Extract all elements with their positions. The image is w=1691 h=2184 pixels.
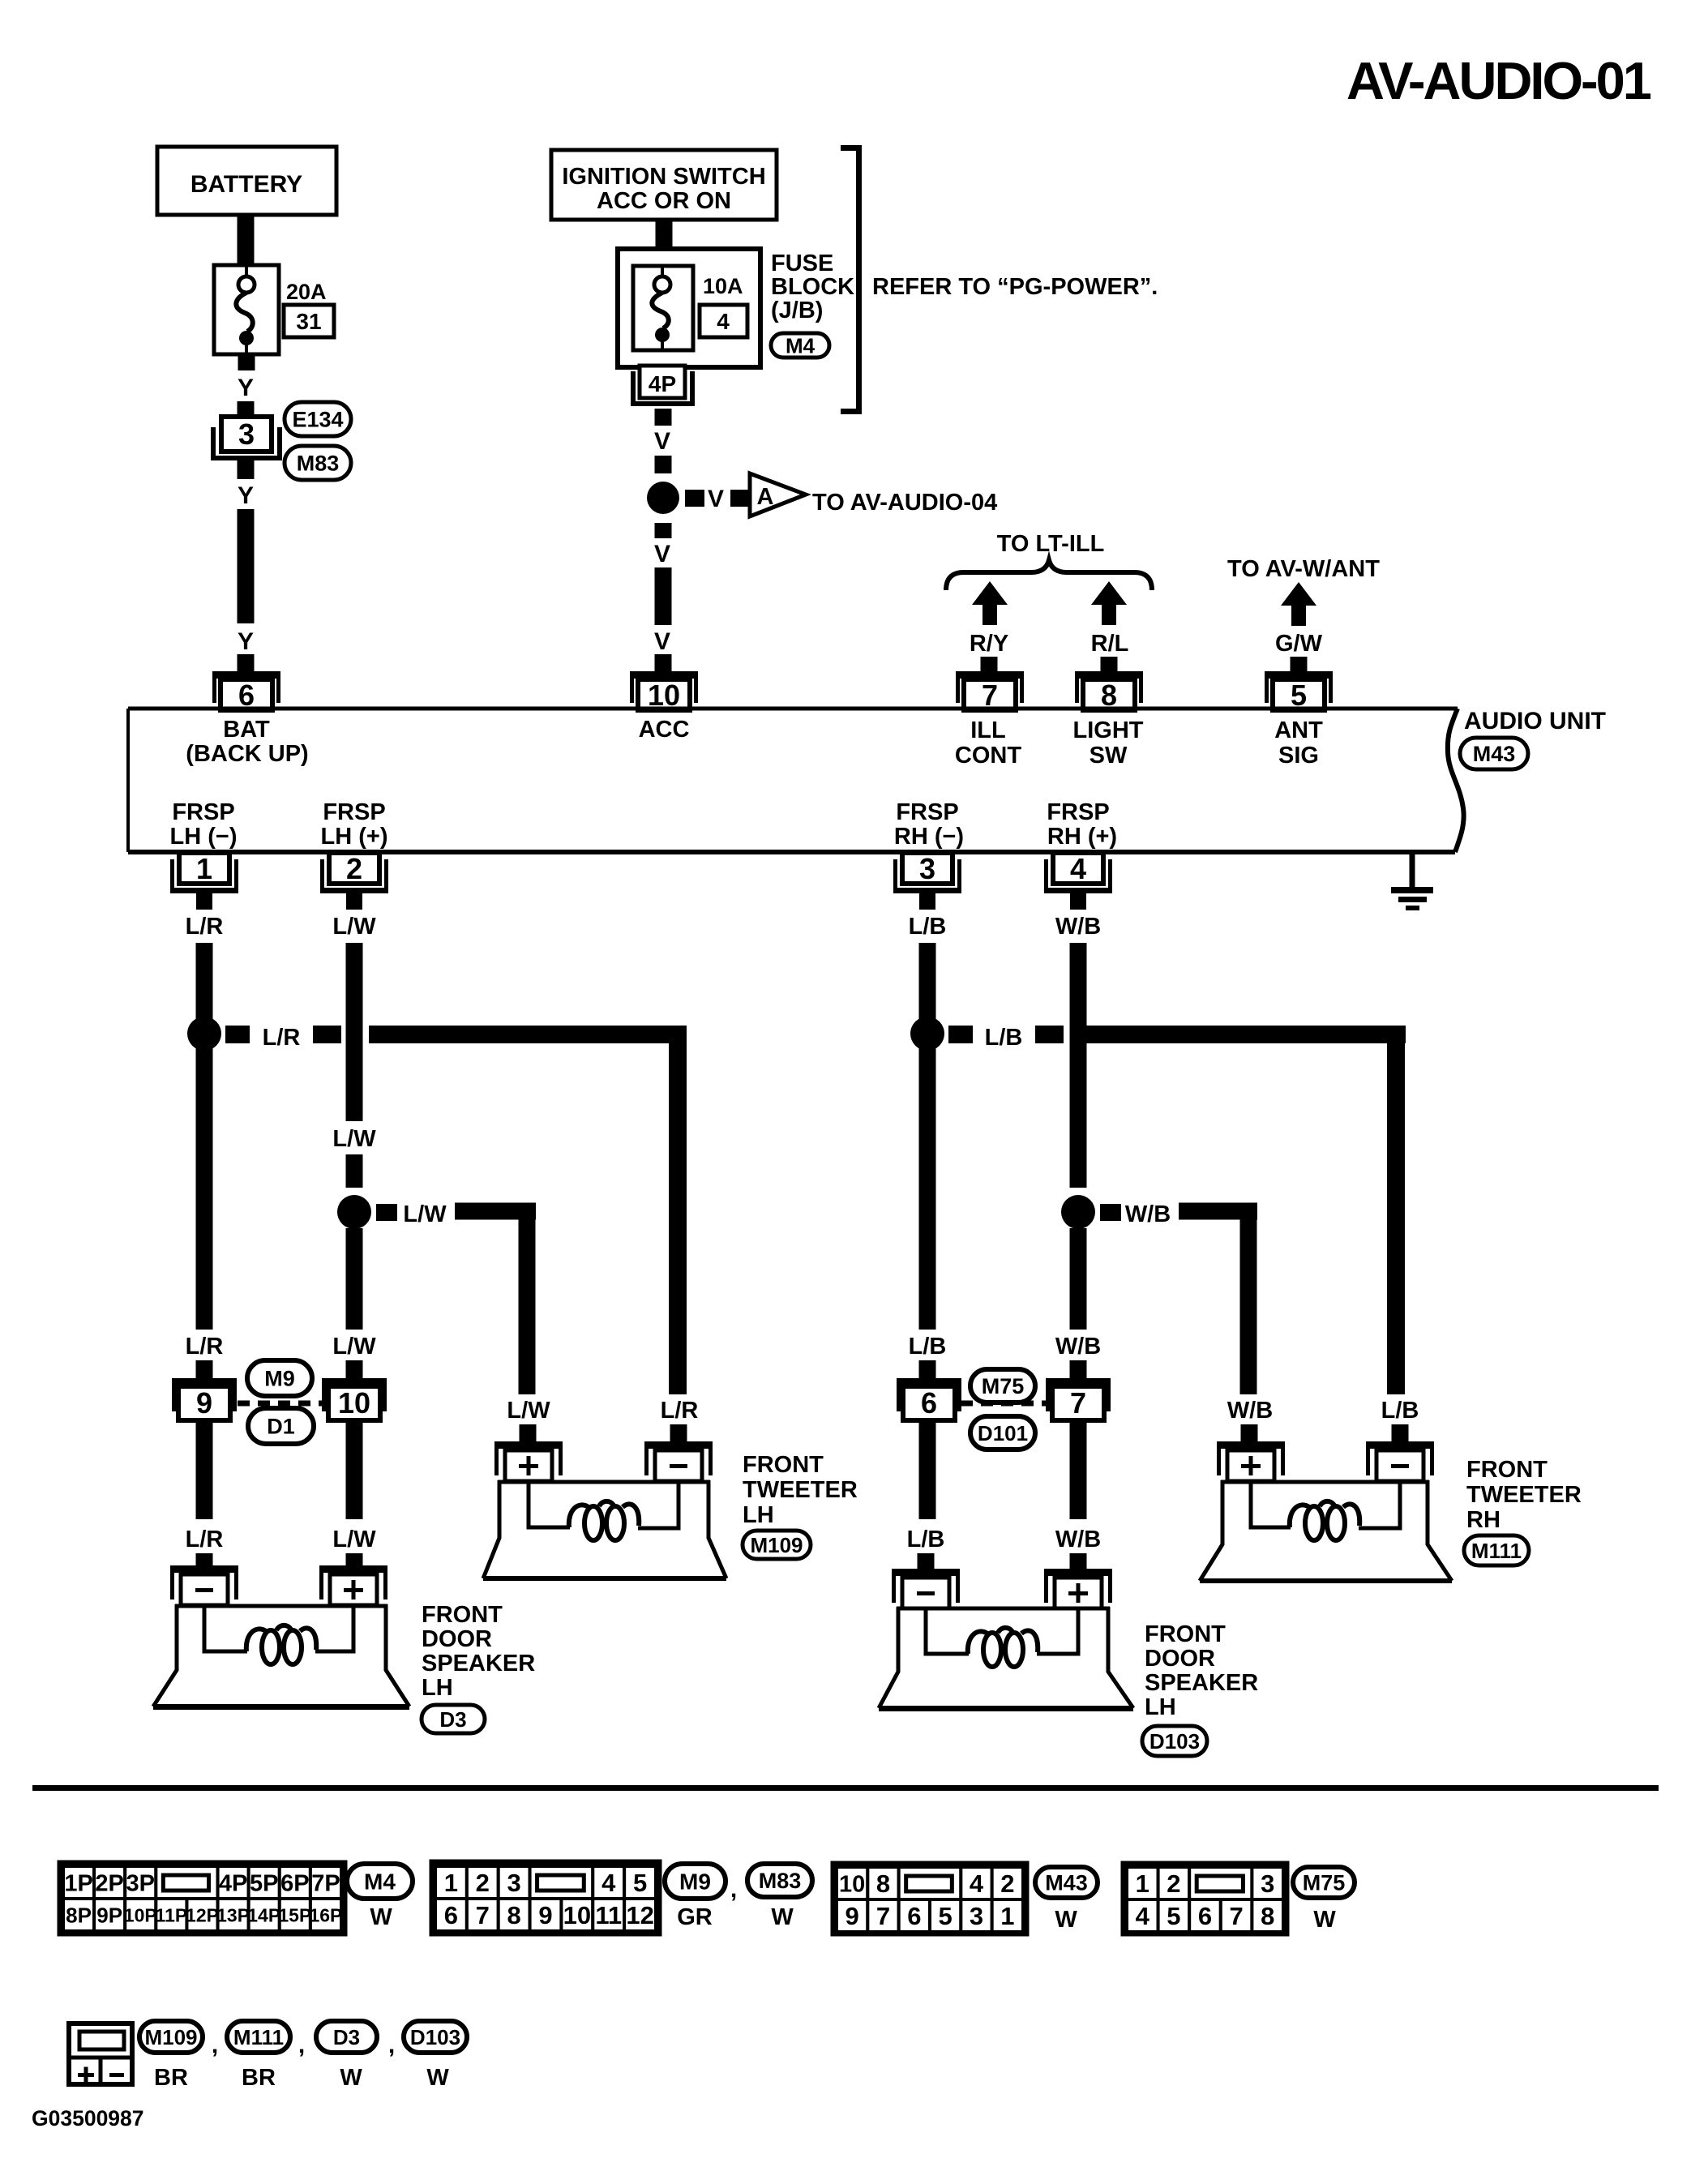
wire label R/Y	[970, 631, 1008, 657]
wire L/B connector 6 to speaker	[919, 1420, 936, 1519]
svg-text:M43: M43	[1473, 742, 1516, 766]
title AV-AUDIO-01	[1346, 51, 1651, 110]
svg-text:ACC: ACC	[639, 717, 690, 743]
svg-text:D3: D3	[333, 2025, 360, 2049]
svg-text:FRONT: FRONT	[1145, 1621, 1226, 1647]
note REFER TO PG-POWER	[872, 274, 1158, 300]
fuse block M4 outer box	[618, 249, 760, 367]
wire L/R stub above speaker -	[196, 1553, 213, 1572]
svg-text:LH: LH	[743, 1502, 774, 1528]
connector label M9	[247, 1360, 312, 1396]
tweeter RH voice coil	[1290, 1501, 1359, 1540]
tweeter LH + terminal	[494, 1441, 563, 1481]
svg-text:8: 8	[507, 1901, 521, 1929]
color label W (M83)	[771, 1904, 794, 1930]
svg-text:M111: M111	[233, 2025, 284, 2049]
pin label FRSP RH (-)	[894, 799, 964, 850]
connector label M109 (legend)	[139, 2021, 203, 2053]
svg-text:5P: 5P	[250, 1870, 278, 1896]
svg-text:FRONT: FRONT	[743, 1452, 824, 1478]
wire V dash right of node	[685, 490, 704, 507]
pin 5 ANT SIG	[1265, 671, 1333, 712]
off-page arrow to LT-ILL via R/Y	[972, 581, 1008, 625]
svg-text:LH (−): LH (−)	[170, 824, 238, 850]
wire label L/W	[403, 1201, 447, 1227]
wire W/B branch to tweeter RH +	[1179, 1203, 1257, 1395]
tweeter LH - terminal	[644, 1441, 713, 1481]
wire label L/B	[1381, 1398, 1419, 1424]
wire L/B stub above connector 6	[919, 1360, 936, 1378]
wire L/B stub above speaker -	[918, 1553, 935, 1572]
svg-text:RH (+): RH (+)	[1047, 824, 1117, 850]
svg-text:SPEAKER: SPEAKER	[422, 1651, 535, 1677]
component label FRONT DOOR SPEAKER LH (right)	[1145, 1621, 1258, 1720]
wire W/B node to connector 7	[1070, 1228, 1087, 1330]
svg-text:TO AV-W/ANT: TO AV-W/ANT	[1227, 556, 1380, 582]
svg-text:5: 5	[939, 1902, 953, 1930]
connector 7	[1046, 1378, 1111, 1420]
wire W/B connector 7 to speaker	[1070, 1420, 1087, 1519]
svg-text:12: 12	[626, 1901, 653, 1929]
svg-text:FRSP: FRSP	[172, 799, 234, 825]
legend speaker connector	[69, 2023, 132, 2084]
door speaker RH voice coil	[968, 1628, 1038, 1667]
svg-text:11: 11	[595, 1901, 622, 1929]
svg-text:7: 7	[1070, 1386, 1086, 1420]
wire label L/R	[186, 1527, 224, 1552]
connector label D3	[422, 1705, 485, 1733]
svg-text:L/B: L/B	[907, 1527, 945, 1552]
wire R/Y stub above pin 7	[981, 657, 998, 671]
wire L/W pin2 segment	[346, 943, 363, 1121]
svg-text:7: 7	[876, 1902, 890, 1930]
connector label D101	[970, 1416, 1035, 1450]
junction node L/W	[337, 1195, 371, 1229]
svg-text:,: ,	[298, 2032, 305, 2058]
dashed link M75/D101	[961, 1401, 1050, 1407]
wire Y dash	[238, 401, 255, 416]
audio unit M43 outline	[128, 709, 1464, 852]
wire V dash below node	[655, 523, 672, 538]
svg-text:G/W: G/W	[1275, 631, 1323, 657]
svg-text:FRONT: FRONT	[1466, 1457, 1548, 1483]
svg-text:RH: RH	[1466, 1507, 1500, 1533]
svg-text:Y: Y	[238, 375, 254, 401]
svg-text:AUDIO UNIT: AUDIO UNIT	[1464, 708, 1606, 734]
junction node L/R	[187, 1017, 221, 1051]
svg-text:L/R: L/R	[186, 1527, 224, 1552]
wire label L/R	[186, 914, 224, 940]
svg-text:BR: BR	[154, 2065, 188, 2091]
comma	[212, 2032, 218, 2058]
wire L/R dash	[313, 1026, 341, 1043]
svg-text:L/W: L/W	[332, 1334, 376, 1360]
pin 3 FRSP RH -	[893, 852, 961, 910]
svg-text:M109: M109	[750, 1533, 803, 1557]
svg-text:M75: M75	[982, 1374, 1025, 1398]
svg-text:FRONT: FRONT	[422, 1602, 503, 1628]
connector label D3 (legend)	[316, 2021, 377, 2053]
dashed link M9/D1	[238, 1401, 327, 1407]
svg-text:M43: M43	[1045, 1871, 1088, 1895]
svg-text:14P: 14P	[247, 1904, 280, 1925]
door speaker LH - terminal	[170, 1565, 238, 1605]
svg-text:,: ,	[212, 2032, 218, 2058]
front door speaker LH body	[153, 1604, 409, 1710]
pin 1 FRSP LH -	[170, 852, 238, 910]
fuse F2 10A	[633, 266, 693, 350]
wire R/L stub above pin 8	[1101, 657, 1118, 671]
svg-text:M4: M4	[786, 333, 816, 358]
svg-text:(BACK UP): (BACK UP)	[186, 741, 308, 767]
wire W/B pin4 segment	[1070, 943, 1087, 1188]
connector table M43	[833, 1864, 1026, 1933]
svg-text:SPEAKER: SPEAKER	[1145, 1670, 1258, 1696]
connector label M9 (table)	[665, 1864, 726, 1899]
door speaker LH voice coil	[246, 1625, 316, 1664]
wire L/R stub above tweeter -	[670, 1424, 687, 1441]
svg-text:L/B: L/B	[1381, 1398, 1419, 1424]
svg-text:2P: 2P	[95, 1870, 123, 1896]
pin label LIGHT SW	[1073, 717, 1144, 769]
wire label L/W	[332, 1334, 376, 1360]
svg-text:12P: 12P	[186, 1904, 219, 1925]
svg-text:LH (+): LH (+)	[321, 824, 388, 850]
svg-text:L/W: L/W	[507, 1398, 550, 1424]
color label W (D3)	[340, 2065, 362, 2091]
svg-text:7P: 7P	[311, 1870, 340, 1896]
svg-text:L/W: L/W	[403, 1201, 447, 1227]
svg-text:ACC OR ON: ACC OR ON	[597, 188, 731, 214]
svg-text:DOOR: DOOR	[422, 1626, 492, 1652]
pin label FRSP LH (+)	[321, 799, 388, 850]
wire label L/W	[332, 1527, 376, 1552]
wire L/B branch to tweeter RH -	[1070, 1026, 1406, 1394]
connector 9	[172, 1378, 237, 1420]
svg-text:E134: E134	[292, 408, 343, 432]
svg-text:2: 2	[1167, 1869, 1180, 1898]
svg-text:D103: D103	[1149, 1729, 1200, 1754]
svg-text:9: 9	[196, 1386, 212, 1420]
wire label L/R	[661, 1398, 699, 1424]
color label W (D103)	[426, 2065, 449, 2091]
pin 7 ILL CONT	[956, 671, 1024, 712]
svg-text:16P: 16P	[309, 1904, 342, 1925]
svg-text:2: 2	[346, 852, 362, 885]
connector label M83	[285, 446, 351, 480]
wire V dash before arrow	[730, 490, 750, 507]
pin 4 FRSP RH +	[1044, 852, 1112, 910]
svg-text:D103: D103	[410, 2025, 460, 2049]
svg-text:L/R: L/R	[186, 1334, 224, 1360]
connector 6	[897, 1378, 961, 1420]
color label BR (M109)	[154, 2065, 188, 2091]
pin label ILL CONT	[955, 717, 1021, 769]
connector 4P	[631, 366, 695, 406]
component label FRONT DOOR SPEAKER LH	[422, 1602, 535, 1701]
wire L/B pin3 to connector 6	[919, 943, 936, 1330]
svg-text:SIG: SIG	[1278, 743, 1319, 769]
wire label W/B	[1227, 1398, 1273, 1424]
battery	[157, 147, 336, 215]
svg-text:TO AV-AUDIO-04: TO AV-AUDIO-04	[812, 490, 997, 516]
pin label ANT SIG	[1274, 717, 1323, 769]
svg-text:7: 7	[1229, 1902, 1243, 1930]
comma	[298, 2032, 305, 2058]
tweeter RH - terminal	[1366, 1441, 1434, 1481]
svg-text:V: V	[708, 486, 724, 512]
svg-text:SW: SW	[1090, 743, 1128, 769]
svg-text:W: W	[370, 1904, 392, 1930]
wire label L/B	[985, 1025, 1023, 1051]
door speaker LH + terminal	[319, 1565, 387, 1605]
svg-text:BLOCK: BLOCK	[771, 274, 854, 300]
svg-text:BR: BR	[242, 2065, 276, 2091]
color label BR (M111)	[242, 2065, 276, 2091]
svg-text:3: 3	[507, 1869, 521, 1897]
svg-text:ANT: ANT	[1274, 717, 1323, 743]
svg-text:10P: 10P	[124, 1904, 157, 1925]
wire W/B dash right of node	[1100, 1204, 1121, 1221]
svg-text:FUSE: FUSE	[771, 251, 833, 276]
svg-text:(J/B): (J/B)	[771, 298, 823, 323]
connector table M4	[60, 1863, 345, 1933]
svg-text:6: 6	[907, 1902, 921, 1930]
pin label BAT (BACK UP)	[186, 717, 308, 767]
svg-text:1: 1	[1000, 1902, 1014, 1930]
refer bracket	[841, 145, 862, 414]
svg-text:6: 6	[921, 1386, 937, 1420]
svg-text:8P: 8P	[66, 1903, 92, 1927]
note TO LT-ILL	[997, 531, 1105, 557]
wire label Y	[238, 628, 254, 655]
svg-text:M83: M83	[759, 1869, 802, 1893]
wire L/B stub above tweeter -	[1392, 1424, 1409, 1441]
svg-text:L/W: L/W	[332, 1527, 376, 1552]
tweeter LH voice coil	[569, 1501, 639, 1540]
wire label L/R	[186, 1334, 224, 1360]
off-page arrow to LT-ILL via R/L	[1091, 581, 1127, 625]
svg-text:M9: M9	[264, 1367, 295, 1391]
svg-text:M83: M83	[297, 452, 340, 476]
note TO AV-AUDIO-04	[812, 490, 997, 516]
svg-text:6: 6	[444, 1901, 458, 1929]
fuse number 4	[700, 305, 747, 337]
svg-text:W: W	[426, 2065, 449, 2091]
wire Y to pin 6	[238, 509, 255, 623]
wire battery to fuse F1	[238, 215, 255, 265]
wire label L/B	[909, 1334, 947, 1360]
svg-text:3: 3	[238, 418, 255, 451]
svg-text:1: 1	[1136, 1869, 1149, 1898]
svg-text:1: 1	[444, 1869, 458, 1897]
wire L/W stub above connector 10	[346, 1360, 363, 1378]
connector label M4	[771, 333, 829, 358]
wire G/W stub above pin 5	[1291, 657, 1308, 671]
svg-text:R/Y: R/Y	[970, 631, 1008, 657]
wire L/W segment to node	[346, 1154, 363, 1188]
svg-text:M111: M111	[1471, 1539, 1522, 1563]
pin 2 FRSP LH +	[320, 852, 388, 910]
svg-text:M109: M109	[144, 2025, 197, 2049]
svg-text:10A: 10A	[703, 274, 743, 298]
wire label Y	[238, 482, 254, 509]
connector label M111 (legend)	[227, 2021, 290, 2053]
svg-text:ILL: ILL	[970, 717, 1006, 743]
front door speaker RH body	[879, 1607, 1133, 1711]
wire W/B stub above speaker +	[1070, 1553, 1087, 1572]
svg-text:10: 10	[563, 1901, 591, 1929]
svg-text:3: 3	[919, 852, 935, 885]
pin label FRSP LH (-)	[170, 799, 238, 850]
svg-text:GR: GR	[677, 1904, 713, 1930]
connector label D103	[1142, 1726, 1207, 1756]
wire L/W dash right of node	[376, 1204, 397, 1221]
connector 10	[322, 1378, 387, 1420]
svg-text:W: W	[1055, 1907, 1077, 1933]
svg-text:V: V	[654, 428, 670, 455]
pin label FRSP RH (+)	[1047, 799, 1117, 850]
svg-text:11P: 11P	[156, 1904, 188, 1925]
svg-text:3: 3	[970, 1902, 983, 1930]
wire label L/W	[332, 914, 376, 940]
connector table M9/M83	[432, 1862, 659, 1933]
wire L/B dash right of node	[948, 1026, 973, 1043]
wire V stub above pin 10	[655, 654, 672, 671]
wire L/B dash	[1035, 1026, 1064, 1043]
off-page arrow to AV-W/ANT	[1281, 582, 1316, 626]
svg-text:M4: M4	[364, 1869, 396, 1895]
pin 8 LIGHT SW	[1075, 671, 1143, 712]
svg-text:W: W	[340, 2065, 362, 2091]
pin label ACC	[639, 717, 690, 743]
wire L/W stub above speaker +	[346, 1553, 363, 1572]
color label W (M43)	[1055, 1907, 1077, 1933]
wire L/W connector 10 to speaker	[346, 1420, 363, 1519]
front tweeter LH body	[483, 1480, 726, 1581]
wire L/R pin1 to connector 9	[196, 943, 213, 1330]
wire Y stub below fuse	[238, 354, 255, 370]
wire label W/B	[1055, 1334, 1101, 1360]
svg-text:9: 9	[538, 1901, 552, 1929]
ground	[1391, 852, 1433, 910]
wire label L/W	[507, 1398, 550, 1424]
svg-text:W/B: W/B	[1055, 914, 1101, 940]
svg-text:L/R: L/R	[263, 1025, 301, 1051]
wire Y stub below connector 3	[238, 460, 255, 479]
front tweeter RH body	[1200, 1480, 1452, 1583]
svg-text:8: 8	[1261, 1902, 1274, 1930]
wire L/R connector 9 to speaker	[196, 1420, 213, 1519]
wire label L/W	[332, 1126, 376, 1152]
svg-text:L/R: L/R	[661, 1398, 699, 1424]
wire W/B stub above tweeter +	[1241, 1424, 1258, 1441]
brace over R/Y R/L arrows	[946, 560, 1152, 590]
connector label M83 (table)	[747, 1864, 812, 1897]
svg-text:DOOR: DOOR	[1145, 1646, 1215, 1672]
wire L/R dash right of node	[225, 1026, 250, 1043]
wire Y stub above pin 6	[238, 654, 255, 671]
svg-text:G03500987: G03500987	[32, 2106, 144, 2130]
connector label M43	[1460, 738, 1528, 769]
wire V dash	[655, 456, 672, 473]
fuse F1 20A	[214, 265, 279, 354]
connector label E134	[285, 402, 351, 436]
wire label V	[654, 541, 670, 567]
door speaker RH - terminal	[892, 1569, 960, 1608]
color label W (M4)	[370, 1904, 392, 1930]
tweeter RH + terminal	[1217, 1441, 1285, 1481]
junction node L/B	[910, 1017, 944, 1051]
svg-text:V: V	[654, 541, 670, 567]
svg-text:3P: 3P	[126, 1870, 155, 1896]
svg-text:7: 7	[476, 1901, 490, 1929]
off-page arrow A to AV-AUDIO-04	[750, 473, 806, 516]
svg-text:6P: 6P	[280, 1870, 309, 1896]
svg-text:8: 8	[876, 1869, 890, 1898]
connector label D1	[248, 1408, 314, 1444]
ignition switch	[551, 150, 777, 220]
wire W/B stub above connector 7	[1070, 1360, 1087, 1378]
svg-text:L/B: L/B	[909, 914, 947, 940]
svg-text:LIGHT: LIGHT	[1073, 717, 1144, 743]
svg-text:15P: 15P	[278, 1904, 311, 1925]
wire label L/B	[907, 1527, 945, 1552]
wire L/R stub above connector 9	[196, 1360, 213, 1378]
svg-text:BATTERY: BATTERY	[191, 171, 302, 198]
pin 10 ACC	[630, 671, 698, 712]
svg-text:CONT: CONT	[955, 743, 1021, 769]
svg-text:V: V	[654, 628, 670, 655]
svg-text:2: 2	[1000, 1869, 1014, 1898]
wire L/R branch to tweeter LH -	[369, 1026, 687, 1394]
svg-text:6: 6	[1198, 1902, 1212, 1930]
wire label R/L	[1091, 631, 1129, 657]
svg-text:L/W: L/W	[332, 914, 376, 940]
svg-text:D1: D1	[267, 1415, 295, 1439]
svg-text:TO LT-ILL: TO LT-ILL	[997, 531, 1105, 557]
svg-text:9: 9	[845, 1902, 859, 1930]
svg-text:A: A	[757, 484, 774, 510]
svg-text:W/B: W/B	[1227, 1398, 1273, 1424]
svg-text:10: 10	[839, 1871, 865, 1897]
svg-text:FRSP: FRSP	[896, 799, 958, 825]
component label FRONT TWEETER LH	[743, 1452, 858, 1528]
component label AUDIO UNIT	[1464, 708, 1606, 734]
pin 6 BAT	[212, 671, 280, 712]
component label FRONT TWEETER RH	[1466, 1457, 1582, 1533]
wire label V	[654, 628, 670, 655]
svg-text:W: W	[1313, 1907, 1336, 1933]
svg-text:W/B: W/B	[1125, 1201, 1171, 1227]
connector label M111	[1464, 1535, 1529, 1565]
fuse block label	[771, 251, 854, 323]
connector label D103 (legend)	[404, 2021, 467, 2053]
svg-text:M75: M75	[1303, 1871, 1346, 1895]
svg-text:D3: D3	[439, 1707, 466, 1732]
svg-text:L/B: L/B	[909, 1334, 947, 1360]
svg-text:20A: 20A	[286, 280, 327, 304]
svg-text:2: 2	[476, 1869, 490, 1897]
svg-text:W/B: W/B	[1055, 1527, 1101, 1552]
wire V to pin 10	[655, 567, 672, 625]
svg-text:BAT: BAT	[223, 717, 270, 743]
svg-text:4: 4	[717, 309, 730, 334]
svg-text:W: W	[771, 1904, 794, 1930]
svg-text:M9: M9	[679, 1869, 711, 1895]
svg-text:FRSP: FRSP	[323, 799, 385, 825]
separator line	[32, 1785, 1659, 1791]
